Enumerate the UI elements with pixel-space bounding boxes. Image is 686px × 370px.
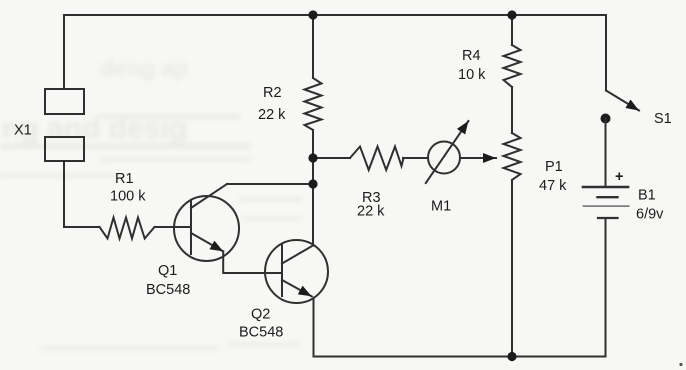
wire: R4 to P1 [511, 87, 513, 133]
battery B1 [583, 187, 629, 218]
wire: Q1 collector to node [227, 183, 313, 185]
svg-text:BC548: BC548 [239, 325, 283, 341]
wire: node to R3 [313, 157, 350, 159]
wire: battery to bottom rail [605, 218, 607, 357]
wire: M1 to wiper arrow of P1 [460, 157, 496, 159]
label Q2 [239, 307, 283, 341]
node: R2 bottom / R3 [308, 153, 317, 162]
scanned page background ghost text [0, 55, 302, 351]
svg-text:Q1: Q1 [158, 263, 177, 279]
label Q1 [146, 263, 190, 298]
svg-text:R1: R1 [115, 171, 134, 187]
resistor R1 [100, 218, 155, 239]
wire: R3 to M1 [403, 157, 428, 159]
wire: Q1 emitter to Q2 base [223, 251, 282, 273]
potentiometer P1 [504, 133, 521, 180]
transistor Q2 [265, 240, 328, 303]
meter M1 [426, 121, 469, 183]
transistor Q1 [174, 184, 239, 261]
wire: X1 to R1 [64, 161, 100, 227]
node: P1 / bottom rail [507, 352, 516, 361]
resistor R3 [350, 147, 404, 171]
wire: R1 to Q1 base [155, 226, 192, 228]
svg-text:X1: X1 [14, 123, 32, 139]
svg-text:BC548: BC548 [146, 282, 190, 298]
svg-text:22 k: 22 k [357, 204, 385, 220]
svg-text:+: + [615, 169, 623, 185]
wire: top rail to R4 [511, 15, 513, 45]
label B1 value [636, 188, 664, 223]
svg-text:R4: R4 [462, 48, 481, 64]
wire: top rail to R2 [312, 15, 314, 78]
stray ink dot bottom right [679, 363, 682, 366]
node: Q1 collector junction [308, 179, 317, 188]
wire: top rail [64, 14, 606, 16]
svg-text:B1: B1 [638, 188, 656, 204]
svg-text:M1: M1 [431, 199, 451, 215]
svg-text:deng ap: deng ap [100, 55, 188, 81]
label P1 value [539, 159, 567, 194]
resistor R2 [305, 78, 322, 130]
resistor R4 [504, 45, 521, 87]
sensor pad X1 upper plate [45, 89, 84, 114]
svg-text:22 k: 22 k [258, 107, 286, 123]
node: top rail / R4 [507, 10, 516, 19]
svg-text:S1: S1 [654, 111, 672, 127]
svg-text:6/9v: 6/9v [636, 207, 664, 223]
svg-text:47 k: 47 k [539, 178, 567, 194]
label R2 value [258, 85, 286, 123]
wire: P1 to bottom rail [511, 180, 513, 357]
node: top rail / R2 [308, 10, 317, 19]
svg-text:100 k: 100 k [110, 189, 146, 205]
wire: Q2 emitter to bottom rail [313, 298, 315, 357]
svg-text:R2: R2 [263, 85, 282, 101]
label R1 value [110, 171, 146, 205]
wire: left drop to X1 [63, 15, 65, 89]
wire: R2 bottom through nodes to Q2 collector [312, 130, 314, 245]
svg-text:10 k: 10 k [458, 67, 486, 83]
wire: S1 contact to battery [605, 119, 607, 186]
label R3 value [357, 190, 385, 220]
svg-text:Q2: Q2 [251, 307, 270, 323]
sensor pad X1 lower plate [45, 137, 84, 161]
svg-text:P1: P1 [545, 159, 563, 175]
wire: bottom rail [314, 356, 606, 358]
switch S1 [601, 15, 640, 124]
label R4 value [458, 48, 486, 83]
